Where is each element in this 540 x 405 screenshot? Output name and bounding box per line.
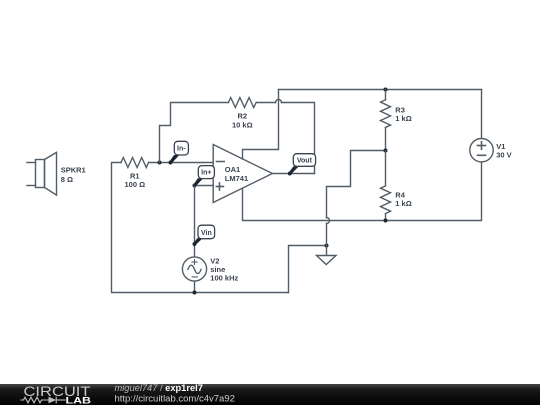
svg-text:30 V: 30 V [496, 151, 511, 160]
svg-text:miguel747 / exp1rel7: miguel747 / exp1rel7 [115, 383, 203, 393]
wire ground to R3/R4 midpoint with hop over V- rail [327, 151, 386, 246]
flag Vin [193, 225, 215, 246]
svg-text:R3: R3 [395, 105, 405, 114]
logo diode [49, 397, 57, 404]
op-amp plus pin mark [216, 183, 223, 190]
label R3 1 kΩ [395, 105, 411, 123]
svg-text:OA1: OA1 [225, 165, 240, 174]
node R3 top junction [384, 88, 388, 92]
svg-text:10 kΩ: 10 kΩ [232, 120, 253, 129]
wire V2 bottom [194, 281, 196, 292]
flag In- [169, 141, 189, 164]
label R2 10 kΩ [232, 112, 253, 130]
svg-text:1 kΩ: 1 kΩ [395, 199, 411, 208]
flag In+ [193, 166, 214, 187]
svg-text:LM741: LM741 [225, 174, 248, 183]
svg-text:In-: In- [177, 146, 186, 153]
wire R2 left loop [160, 103, 229, 163]
flag Vout [288, 154, 316, 176]
resistor R1 [121, 158, 149, 168]
wire R2 right with hop over V+ riser [256, 100, 314, 174]
node junction R1/R2 [158, 161, 162, 165]
wire op-amp + input [195, 185, 214, 187]
svg-text:100 kHz: 100 kHz [210, 274, 238, 283]
resistor R3 [381, 90, 391, 151]
node R4 bottom junction [384, 219, 388, 223]
svg-text:V1: V1 [496, 142, 505, 151]
footer bar [0, 384, 540, 405]
svg-text:Vin: Vin [201, 230, 212, 237]
op-amp minus pin mark [216, 161, 224, 163]
resistor R4 [381, 151, 391, 221]
node V2 bottom junction [193, 291, 197, 295]
label R4 1 kΩ [395, 190, 411, 208]
label V1 30 V [496, 142, 511, 160]
svg-text:8 Ω: 8 Ω [61, 175, 73, 184]
svg-text:1 kΩ: 1 kΩ [395, 114, 411, 123]
svg-text:SPKR1: SPKR1 [61, 165, 86, 174]
wire op-amp output [272, 173, 314, 175]
node ground junction [325, 244, 329, 248]
label R1 100 Ω [124, 171, 145, 189]
svg-text:In+: In+ [201, 170, 211, 177]
ground symbol [317, 246, 337, 265]
source V2 [182, 257, 206, 281]
resistor R2 [228, 98, 256, 108]
source V1 [470, 90, 493, 162]
svg-text:100 Ω: 100 Ω [124, 180, 145, 189]
node R3/R4 midpoint junction [384, 149, 388, 153]
svg-text:http://circuitlab.com/c4v7a92: http://circuitlab.com/c4v7a92 [115, 394, 235, 405]
svg-text:Vout: Vout [297, 158, 313, 165]
svg-text:LAB: LAB [66, 395, 92, 405]
label OA1 LM741 [225, 165, 248, 183]
logo resistor zigzag [21, 397, 66, 404]
op-amp OA1 [213, 145, 272, 203]
top rail [279, 89, 482, 91]
wire V2 riser [194, 186, 196, 258]
wire R1 right to op-amp minus input [149, 162, 214, 164]
svg-text:R4: R4 [395, 190, 405, 199]
svg-text:sine: sine [210, 265, 225, 274]
svg-text:R1: R1 [130, 171, 140, 180]
speaker SPKR1 [27, 152, 57, 195]
svg-text:R2: R2 [238, 112, 248, 121]
node In+ junction [193, 184, 197, 188]
wire op-amp V- to bottom supply rail [243, 163, 482, 221]
label V2 sine 100 kHz [210, 257, 238, 283]
wire ground feeder from bottom rail [289, 246, 327, 293]
wire R1 left + left vertical + bottom rail [112, 163, 289, 293]
wire op-amp V+ riser [243, 90, 279, 159]
label SPKR1 8 Ω [61, 165, 86, 184]
